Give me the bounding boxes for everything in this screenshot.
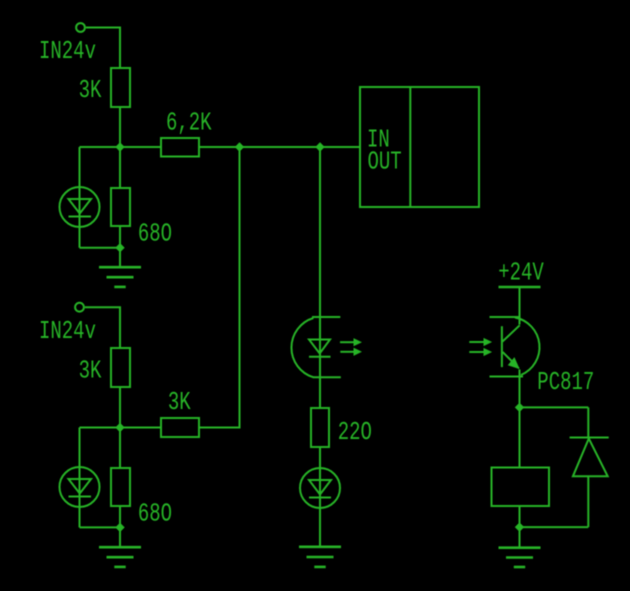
svg-text:3K: 3K — [79, 75, 102, 105]
svg-text:OUT: OUT — [368, 147, 402, 177]
label 3K (R3) — [79, 356, 102, 386]
wire node E to LED D2 branch — [80, 427, 121, 429]
wire node A to resistor R5 — [120, 146, 161, 148]
wire R3 bottom through node E to resistor R4 — [119, 387, 121, 468]
wire R4 bottom through node F to ground — [119, 506, 121, 547]
svg-text:68O: 68O — [138, 499, 172, 529]
label PC817 — [537, 367, 594, 397]
wire emitter down through node G to relay coil — [519, 370, 521, 468]
node E junction — [115, 423, 124, 432]
IC box U1 — [360, 87, 479, 207]
IC box divider — [409, 87, 411, 207]
svg-text:+24V: +24V — [498, 258, 544, 288]
wire node D down to optocoupler LED — [319, 147, 321, 408]
label IN24v (top) — [39, 36, 96, 66]
label +24V — [498, 258, 544, 288]
wire relay bottom through node H to ground — [519, 506, 521, 548]
label 680 (R2) — [138, 219, 172, 249]
wire down to diode D4 — [587, 407, 589, 437]
node C junction on wire y=147 — [235, 142, 244, 151]
node A junction — [115, 142, 124, 151]
wire LED D2 bottom to node F — [80, 526, 121, 528]
terminal pin circle (top input) — [76, 23, 85, 32]
resistor R7 220 (vertical) — [311, 408, 329, 447]
wire node C down to resistor R6 — [199, 147, 240, 428]
ground (bottom-middle) — [299, 547, 341, 567]
terminal pin circle (bottom input) — [75, 303, 84, 312]
ground (bottom-left) — [99, 547, 141, 567]
wire R5 to IC box — [199, 146, 360, 148]
label 3K (R6) — [168, 387, 191, 417]
light arrow 2 from LED — [340, 349, 361, 356]
wire diode D4 anode down — [587, 476, 589, 527]
label 220 (R7) — [338, 417, 372, 447]
svg-text:PC817: PC817 — [537, 367, 594, 397]
resistor R4 680 (vertical) — [111, 468, 130, 506]
node D junction on wire y=147 — [315, 142, 324, 151]
node G junction — [515, 403, 524, 412]
svg-text:68O: 68O — [138, 219, 172, 249]
light arrow 1 from LED — [340, 339, 361, 346]
wire node G to diode cathode branch — [520, 406, 589, 408]
wire from top terminal to resistor R1 — [86, 28, 120, 69]
node B junction — [115, 243, 124, 252]
LED D3 — [300, 468, 340, 547]
wire node H to diode anode branch — [520, 526, 589, 528]
wire LED D1 bottom to node B — [80, 247, 121, 249]
wire R2 bottom through node B to ground — [119, 226, 121, 267]
+24V power rail bar — [499, 286, 541, 289]
node H junction — [515, 522, 524, 531]
LED D2 — [60, 428, 100, 528]
wire node A to LED D1 branch — [80, 146, 121, 148]
ground (top-left) — [99, 267, 141, 287]
wire node E to resistor R6 — [120, 427, 161, 429]
resistor R6 3K (horizontal) — [161, 418, 199, 437]
svg-text:IN24v: IN24v — [39, 36, 96, 66]
wire R7 bottom to LED D3 — [319, 447, 321, 468]
label 3K (R1) — [79, 75, 102, 105]
svg-text:3K: 3K — [168, 387, 191, 417]
ground (bottom-right) — [499, 548, 541, 567]
node F junction — [115, 523, 124, 532]
light arrow 4 into transistor — [469, 349, 491, 356]
resistor R1 3K (vertical) — [111, 68, 130, 107]
svg-text:3K: 3K — [79, 356, 102, 386]
phototransistor Q1 (PC817) — [490, 317, 540, 377]
wire from bottom terminal to resistor R3 — [85, 307, 120, 348]
wire +24V rail down to phototransistor collector — [519, 287, 521, 325]
label OUT (IC pin) — [368, 147, 402, 177]
label 680 (R4) — [138, 499, 172, 529]
svg-text:6,2K: 6,2K — [166, 108, 212, 138]
label IN24v (bottom) — [39, 316, 96, 346]
svg-text:IN24v: IN24v — [39, 316, 96, 346]
resistor R5 6,2K (horizontal) — [161, 138, 199, 157]
resistor R2 680 (vertical) — [111, 188, 130, 226]
wire R1 bottom to node A to resistor R2 top — [119, 107, 121, 188]
LED D1 — [60, 147, 100, 248]
resistor R3 3K (vertical) — [111, 348, 130, 387]
label IN (IC pin) — [367, 125, 390, 155]
diode D4 (flyback, pointing up) — [570, 438, 609, 477]
light arrow 3 into transistor — [469, 339, 491, 346]
optocoupler OK1 emitter LED — [291, 317, 340, 377]
svg-text:22O: 22O — [338, 417, 372, 447]
label 6,2K (R5) — [166, 108, 212, 138]
relay coil K1 — [492, 468, 550, 507]
